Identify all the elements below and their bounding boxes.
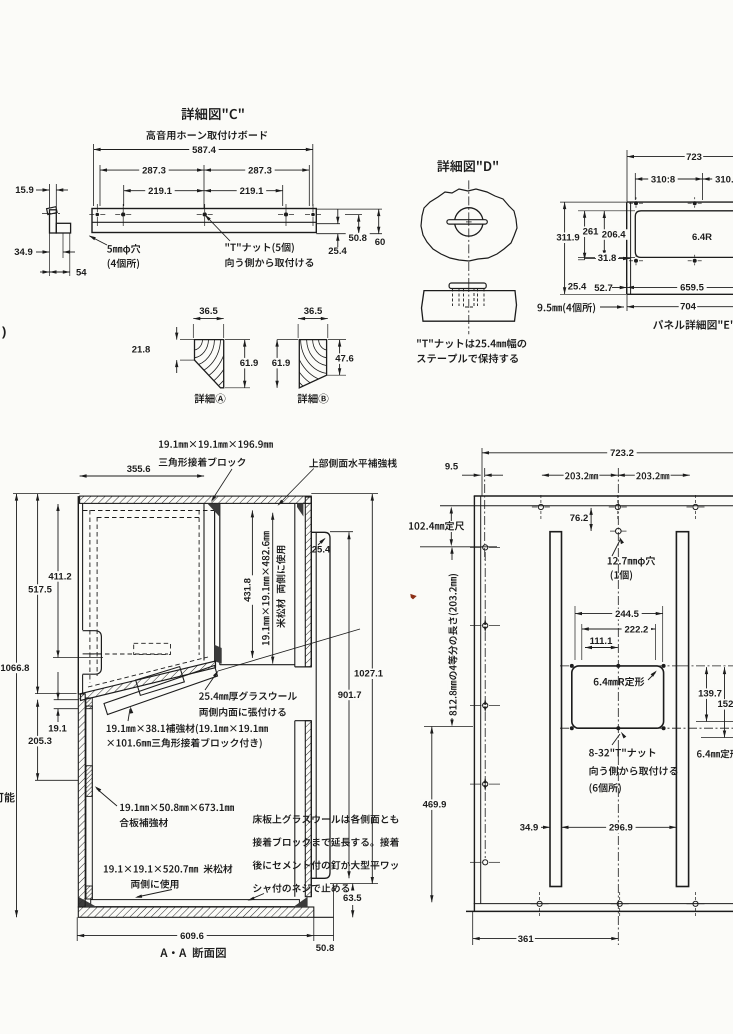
label floor batten l2 (131, 879, 178, 888)
label 19.1x19.1x482.6 rotated (261, 530, 272, 647)
dim 609.6 (77, 935, 314, 937)
ext line 205.3 bottom (35, 779, 78, 781)
svg-text:723.2: 723.2 (610, 448, 634, 459)
floor batten strip (91, 900, 300, 907)
svg-text:222.2: 222.2 (625, 624, 649, 635)
glue block partition top (208, 504, 220, 517)
svg-text:287.3: 287.3 (248, 165, 272, 176)
hole 12.7 center (616, 528, 622, 534)
baffle outer upper (310, 497, 312, 667)
chamber floor line (220, 664, 295, 666)
slant board hatched (81, 661, 216, 701)
ext mid line right (316, 223, 340, 225)
svg-text:50.8: 50.8 (348, 233, 367, 244)
ext vertical 659.5/704 (626, 283, 628, 311)
svg-text:411.2: 411.2 (48, 571, 71, 582)
label 5mm holes (107, 244, 140, 254)
svg-text:244.5: 244.5 (615, 609, 639, 620)
label glue block size (159, 440, 273, 447)
dim 102.4 (409, 521, 464, 530)
svg-text:310:8: 310:8 (651, 174, 675, 185)
dim 50.8 (358, 215, 360, 234)
dim 311.9 (564, 202, 566, 294)
svg-text:469.9: 469.9 (423, 800, 447, 811)
panel E top edge (627, 201, 733, 203)
hole chain centerline (484, 552, 486, 858)
ext lines 34.9 (49, 233, 51, 276)
svg-text:704: 704 (680, 302, 697, 313)
svg-text:1066.8: 1066.8 (0, 663, 29, 674)
small block on slant (136, 667, 185, 696)
svg-text:261: 261 (583, 227, 600, 238)
svg-text:52.7: 52.7 (594, 283, 613, 294)
svg-text:219.1: 219.1 (240, 186, 264, 197)
ext line 411.2 bottom (53, 657, 103, 659)
end view board bar (50, 210, 57, 233)
bottom rail holes x3 (537, 901, 542, 906)
dim 587.4 (94, 149, 313, 151)
label 25.4 glasswool l1 (199, 691, 297, 700)
long diagonal leader (218, 629, 360, 671)
leader stiffener (279, 469, 314, 505)
title: detail view D (437, 160, 498, 172)
svg-text:15.9: 15.9 (15, 185, 34, 196)
cutout T-nut dots x6 (570, 664, 574, 668)
leader 38.1 (128, 709, 130, 721)
corner block bottom left (78, 897, 97, 907)
dim 261 (584, 211, 586, 260)
svg-text:25.4: 25.4 (328, 246, 347, 257)
dim 482.6 line (272, 513, 274, 664)
T-nut flange section (449, 283, 486, 289)
svg-text:205.3: 205.3 (28, 736, 52, 747)
dim 659.5 (627, 286, 733, 288)
dim 310.8 left (635, 178, 702, 180)
sub panel (311, 532, 330, 878)
panel bottom edge (466, 910, 733, 912)
ext 723.2 (481, 448, 483, 496)
dim 222.2 (582, 628, 656, 630)
ext line 517.5 bottom (35, 693, 77, 695)
left batten (550, 532, 562, 887)
dim 355.6 (80, 475, 205, 477)
leader 8-32 (612, 734, 620, 745)
ext 310.8 (634, 173, 636, 200)
svg-text:111.1: 111.1 (590, 636, 613, 647)
note floor glasswool l2 (253, 837, 399, 846)
label 12.7 hole (608, 556, 655, 566)
label 25.4 glasswool l2 (199, 707, 285, 716)
svg-text:6.4R: 6.4R (692, 232, 712, 243)
label floor batten l1 (104, 864, 233, 873)
T-nut holes on board (5) (96, 213, 100, 217)
ext bottom right (316, 233, 382, 235)
baffle hatched upper (305, 497, 311, 667)
note floor glasswool l3 (253, 860, 399, 869)
ext lines 219.1 (123, 185, 125, 206)
ext 361 (472, 911, 474, 945)
block A outline (195, 340, 224, 388)
small dashed rect (134, 643, 171, 654)
baffle inner line lower (294, 721, 296, 897)
svg-text:50.8: 50.8 (316, 943, 335, 954)
right batten (676, 532, 688, 887)
dim 517.5 (37, 494, 39, 694)
section board (422, 291, 517, 322)
rail line y547 (420, 546, 497, 548)
dim 36.5 (A) (193, 318, 223, 320)
end view ext lines (49, 184, 51, 208)
panel E screw holes (634, 201, 638, 205)
svg-text:21.8: 21.8 (132, 345, 151, 356)
svg-text:355.6: 355.6 (127, 464, 151, 475)
dim 723.2 (482, 452, 733, 454)
label T-nut x5 (225, 243, 293, 253)
dim 1027.1 (371, 494, 373, 884)
label plywood l2 (120, 818, 168, 827)
dim 205.3 (37, 700, 39, 781)
horn board outline (92, 209, 316, 233)
ext line left of 587.4 (93, 144, 95, 206)
dim 901.7 (348, 532, 350, 878)
corner block bottom right (293, 897, 307, 907)
T-nut prongs (hidden) (452, 289, 454, 307)
svg-text:36.5: 36.5 (199, 306, 218, 317)
dim 50.8 bottom (314, 935, 334, 937)
dim 431.8 (251, 510, 253, 658)
panel E cutout (635, 211, 733, 258)
svg-text:587.4: 587.4 (192, 145, 216, 156)
svg-text:310.8: 310.8 (715, 174, 733, 185)
dim 310.8 right (703, 178, 733, 180)
dim 60 (378, 209, 380, 234)
ext line 901.7 top (330, 531, 353, 533)
block B outline (299, 340, 326, 388)
svg-text:723: 723 (686, 152, 702, 163)
dim 47.6 (327, 374, 346, 376)
ext T-nut line right (345, 214, 362, 216)
svg-text:61.9: 61.9 (240, 358, 259, 369)
cutout rounded rect (572, 666, 664, 728)
svg-text:659.5: 659.5 (680, 282, 704, 293)
svg-text:609.6: 609.6 (180, 931, 204, 942)
label 6.4R teikei (594, 677, 645, 686)
label 812.8 rotated (448, 572, 459, 717)
dim 203.2 left (542, 474, 618, 476)
end view centerline (42, 213, 60, 215)
dim 219.1 right (204, 190, 283, 192)
chain arrows (484, 619, 487, 625)
top board hatched (80, 496, 312, 503)
leader plywood (97, 789, 118, 807)
left hole column x5 (483, 545, 488, 550)
dim 152.5 (724, 667, 726, 737)
subtitle: tweeter horn mounting board (146, 130, 267, 140)
svg-text:61.9: 61.9 (272, 358, 291, 369)
label 19.1x38.1 l1 (107, 724, 268, 734)
dim 19.1 left (57, 672, 59, 700)
glasswool dash lines (89, 510, 91, 683)
ext top right (311, 493, 378, 495)
svg-text:361: 361 (518, 934, 535, 945)
top rail holes x3 (538, 504, 543, 509)
plywood hatch block (86, 766, 92, 797)
note floor glasswool l4 (253, 884, 349, 893)
rail line y506 (440, 505, 733, 507)
svg-text:9.5: 9.5 (445, 462, 459, 473)
svg-text:311.9: 311.9 (556, 233, 579, 244)
left wall lower hatched (78, 694, 85, 907)
svg-text:76.2: 76.2 (570, 513, 589, 524)
label 8-32 l3 (589, 783, 620, 793)
svg-text:25.4: 25.4 (568, 281, 587, 292)
svg-text:139.7: 139.7 (698, 689, 722, 700)
label 8-32 l2 (589, 766, 677, 775)
title: detail view C (181, 108, 243, 121)
ext lines cutout (578, 210, 635, 212)
baffle inner line upper (294, 504, 296, 667)
dim 206.4 (603, 211, 605, 257)
leader to hole (90, 236, 108, 245)
panel bottom inner line (474, 903, 733, 905)
dim 54 (40, 271, 50, 273)
left wall upper (77, 496, 79, 694)
ext line 723 (626, 150, 628, 202)
dim 203.2 right (618, 474, 690, 476)
dim 25.4 (board top part) (337, 209, 339, 224)
panel E left edge (626, 202, 628, 294)
note: T-nut held by staple l2 (417, 354, 518, 364)
leader floor glasswool (250, 894, 265, 900)
title panel detail E (653, 320, 733, 330)
ext lines 19.1 (54, 699, 78, 701)
cutout centerlines (560, 665, 680, 667)
svg-text:206.4: 206.4 (602, 229, 626, 240)
svg-text:25.4: 25.4 (312, 545, 331, 556)
label beimatsu rotated (276, 544, 287, 629)
wood blob outline (421, 189, 517, 261)
label 19.1x38.1 l2 (107, 738, 261, 748)
leader 12.7 (612, 539, 621, 556)
dim 411.2 (57, 504, 59, 658)
svg-text:517.5: 517.5 (28, 584, 52, 595)
label detail B (298, 394, 329, 404)
label 8-32 l1 (589, 749, 655, 758)
ext 469.9 top (424, 726, 473, 728)
dim 287.3 left (100, 169, 204, 171)
svg-text:296.9: 296.9 (609, 823, 633, 834)
wood grain B (277, 340, 327, 405)
top ext line left (13, 493, 80, 495)
baffle outer lower (310, 721, 312, 897)
leader glue block (212, 469, 232, 500)
floor board hatched (78, 907, 313, 917)
end view cleat (56, 223, 70, 233)
leader glasswool (205, 672, 217, 690)
dim 1066.8 (16, 494, 18, 918)
partial char left margin (0, 792, 15, 802)
dim 36.5 (B) (298, 318, 328, 320)
dim 63.5 (352, 884, 354, 891)
T-nut center mark (466, 221, 472, 223)
panel top edge (474, 495, 733, 497)
label top side horizontal stiffener (309, 458, 397, 467)
centerline through section (468, 283, 470, 334)
dim 31.8 (595, 253, 619, 264)
dim 704 (627, 306, 733, 308)
baffle hatched lower (305, 721, 311, 897)
T-nut flange bar (447, 220, 487, 224)
dim 139.7 (706, 667, 708, 721)
panel inner left line (480, 496, 482, 904)
plywood reinforcement strip (86, 706, 92, 899)
svg-text:219.1: 219.1 (148, 186, 172, 197)
horn board mid line (92, 221, 316, 223)
leader to T-nut (207, 217, 231, 242)
dim 469.9 (431, 727, 433, 903)
svg-text:34.9: 34.9 (520, 823, 539, 834)
leader floor batten (137, 890, 172, 898)
red mark (410, 594, 416, 600)
svg-text:31.8: 31.8 (598, 253, 617, 264)
dashed glasswool right (198, 510, 200, 655)
label plywood l1 (120, 804, 234, 811)
svg-text:47.6: 47.6 (335, 354, 354, 365)
svg-text:54: 54 (76, 268, 87, 279)
svg-text:36.5: 36.5 (304, 306, 323, 317)
label detail A (195, 394, 226, 404)
ext bottom left (76, 917, 78, 941)
opening edges (295, 666, 312, 668)
dim 287.3 right (204, 169, 309, 171)
ext line 884 (330, 883, 378, 885)
label 6.4 teikei right (697, 749, 733, 758)
svg-text:287.3: 287.3 (142, 165, 166, 176)
cleat on left wall (83, 631, 102, 675)
dim 111.1 (585, 647, 618, 649)
svg-text:60: 60 (375, 237, 386, 248)
centerline detail D (468, 180, 470, 258)
svg-text:34.9: 34.9 (14, 247, 33, 258)
dim 244.5 (575, 613, 663, 615)
note floor glasswool l1 (253, 814, 399, 823)
end view top tab (47, 207, 58, 215)
svg-text:19.1: 19.1 (48, 724, 67, 735)
note: T-nut held by staple l1 (417, 339, 526, 349)
ext line right of 587.4 (312, 144, 314, 206)
dim 21.8 (180, 339, 194, 341)
hole centerline left (484, 468, 486, 560)
dim 61.9 (A) (225, 339, 250, 341)
dim 723 (panel E) (627, 156, 733, 158)
svg-text:901.7: 901.7 (338, 690, 362, 701)
label triangular glue block (159, 457, 246, 466)
dim 361 (473, 938, 619, 940)
partition wall (203, 504, 205, 661)
svg-text:): ) (2, 324, 6, 339)
slant reinforcement board (104, 666, 218, 715)
panel left edge (473, 496, 475, 911)
svg-text:431.8: 431.8 (243, 578, 254, 602)
dim 219.1 left (124, 190, 204, 192)
svg-text:1027.1: 1027.1 (354, 669, 384, 680)
section title A-A (160, 947, 225, 958)
ext right side (680, 665, 733, 667)
T-nut circle (455, 208, 483, 236)
svg-text:152.5: 152.5 (718, 699, 733, 710)
dim 61.9 (B) (277, 339, 298, 341)
svg-text:63.5: 63.5 (343, 893, 362, 904)
glue block partition bottom (214, 645, 222, 664)
panel E bottom edge (627, 293, 733, 295)
glue block baffle top (297, 504, 303, 517)
wood grain A (195, 340, 239, 397)
label 9.5mm 4 places (537, 303, 595, 314)
ext line 287.3 (99, 165, 101, 206)
dim 296.9 (562, 826, 677, 828)
ext top edge right (316, 208, 382, 210)
